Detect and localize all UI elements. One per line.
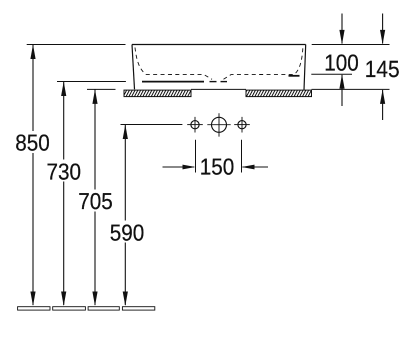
svg-text:150: 150	[200, 153, 235, 179]
svg-text:705: 705	[78, 188, 113, 214]
svg-text:590: 590	[110, 220, 145, 246]
svg-text:145: 145	[365, 56, 400, 82]
svg-text:850: 850	[15, 130, 50, 156]
svg-text:100: 100	[324, 49, 359, 75]
svg-text:730: 730	[47, 158, 82, 184]
